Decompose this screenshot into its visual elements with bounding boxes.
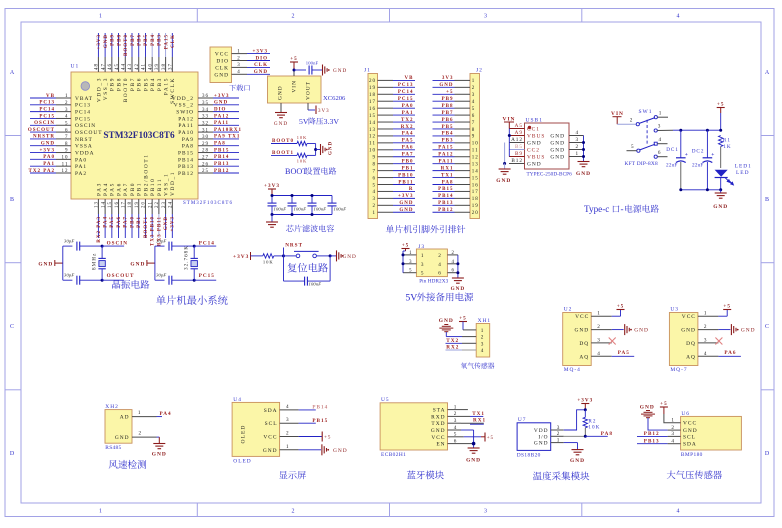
wire net +3V3 xyxy=(171,214,173,238)
svg-text:PC14: PC14 xyxy=(39,107,55,112)
capacitor 100nF #1 xyxy=(271,196,273,204)
svg-text:PA12: PA12 xyxy=(178,116,194,122)
svg-text:PB4: PB4 xyxy=(150,77,156,91)
wire RXD TX1 xyxy=(461,415,470,417)
svg-text:PA6: PA6 xyxy=(117,216,122,228)
svg-text:PC13: PC13 xyxy=(75,103,91,109)
title MCU pin headers xyxy=(386,225,394,233)
wire gnd bus xyxy=(473,430,475,448)
svg-text:PB5: PB5 xyxy=(442,125,454,130)
svg-text:GND: GND xyxy=(329,141,334,155)
wire net PB4 xyxy=(151,33,153,57)
power +5 xyxy=(290,61,298,63)
wire net GND xyxy=(433,86,455,88)
wire +5 bus xyxy=(405,249,407,252)
svg-text:NRST: NRST xyxy=(285,243,303,249)
wire net PC13 xyxy=(393,86,415,88)
wire net PB3 xyxy=(158,33,160,57)
svg-text:20: 20 xyxy=(369,79,376,84)
title download port xyxy=(229,85,236,91)
svg-text:+3V3: +3V3 xyxy=(398,194,413,199)
svg-text:GND: GND xyxy=(439,318,454,324)
svg-text:2: 2 xyxy=(373,204,377,209)
wire net PA5 xyxy=(111,214,113,238)
svg-text:VCC: VCC xyxy=(575,314,589,320)
node junction xyxy=(584,408,587,411)
svg-text:22uF: 22uF xyxy=(692,163,703,169)
svg-text:AD: AD xyxy=(120,415,130,421)
wire STA xyxy=(461,409,468,411)
wire AQ to PA5 xyxy=(612,355,635,357)
svg-text:9: 9 xyxy=(373,156,377,161)
svg-text:4: 4 xyxy=(286,404,290,410)
svg-text:KFT DIP-8X8: KFT DIP-8X8 xyxy=(625,161,659,167)
svg-text:PB14: PB14 xyxy=(312,405,328,411)
svg-text:PA2: PA2 xyxy=(75,171,87,177)
svg-text:18: 18 xyxy=(472,197,479,202)
wire net OSCIN xyxy=(30,124,56,126)
svg-text:GND: GND xyxy=(399,201,413,206)
svg-text:GND: GND xyxy=(333,448,348,454)
wire pin3 rail xyxy=(657,129,673,131)
svg-text:5V: 5V xyxy=(299,117,309,126)
node bottom junctions xyxy=(679,188,682,191)
svg-text:SCL: SCL xyxy=(265,421,278,427)
svg-text:BOOT0: BOOT0 xyxy=(123,77,129,102)
module U7 body xyxy=(517,423,551,451)
connector J3 body xyxy=(416,249,447,277)
wire net PB15 xyxy=(213,152,239,154)
title MCU minimum system xyxy=(156,295,166,304)
wire VIN to VBUS xyxy=(508,122,510,129)
svg-text:NRSTR: NRSTR xyxy=(33,135,55,140)
wire net R xyxy=(393,190,415,192)
svg-text:PA6: PA6 xyxy=(402,146,414,151)
wire net GND xyxy=(393,204,415,206)
svg-text:GND: GND xyxy=(104,34,109,48)
svg-text:J1: J1 xyxy=(364,68,371,74)
wire to ground xyxy=(720,190,722,193)
svg-text:2: 2 xyxy=(139,431,143,437)
wire GND xyxy=(612,329,624,331)
connector XH1 body xyxy=(476,324,490,358)
svg-text:14: 14 xyxy=(472,169,479,174)
svg-text:DIO: DIO xyxy=(216,59,229,65)
svg-text:-: - xyxy=(621,204,624,214)
svg-text:SW1: SW1 xyxy=(639,109,653,115)
svg-text:PB9: PB9 xyxy=(111,34,116,46)
svg-text:EN: EN xyxy=(436,442,445,448)
wire net PC13 xyxy=(30,104,56,106)
wire net PB8 xyxy=(433,107,455,109)
wire GND pin xyxy=(280,103,282,112)
wire net +3V3 xyxy=(213,97,239,99)
node junction xyxy=(314,148,317,151)
wire junction xyxy=(315,144,317,156)
svg-text:1: 1 xyxy=(373,211,377,216)
svg-text:PA0: PA0 xyxy=(402,104,414,109)
svg-text:10K: 10K xyxy=(297,159,308,164)
wire net PB5 xyxy=(144,33,146,57)
wire net PB4 xyxy=(433,135,455,137)
svg-text:1K: 1K xyxy=(723,144,731,150)
svg-text:17: 17 xyxy=(369,100,376,105)
svg-text:+5: +5 xyxy=(487,436,494,441)
power +5 xyxy=(723,309,731,311)
wire net PB14 xyxy=(213,158,239,160)
svg-text:PA11: PA11 xyxy=(214,121,229,126)
node DC1 junction xyxy=(679,129,682,132)
regulator U8 XC6206 body xyxy=(268,76,322,103)
svg-text:19: 19 xyxy=(369,86,376,91)
node VIN junction xyxy=(293,69,296,72)
wire SDA PB13 xyxy=(637,443,668,445)
svg-text:PB15: PB15 xyxy=(438,187,453,192)
svg-text:PB4: PB4 xyxy=(442,132,454,137)
svg-text:17: 17 xyxy=(472,190,479,195)
svg-text:PB0: PB0 xyxy=(130,182,136,196)
svg-text:DC2: DC2 xyxy=(692,149,705,155)
wire +5 to pin1 xyxy=(462,322,464,330)
wire net PA6 xyxy=(118,214,120,238)
svg-text:OSCIN: OSCIN xyxy=(107,241,128,247)
svg-text:GND: GND xyxy=(527,162,542,168)
wire +3V3 feed xyxy=(271,189,273,196)
svg-text:I/O: I/O xyxy=(538,434,548,440)
wire VCC +5 xyxy=(299,436,322,438)
svg-text:RX2 PA3: RX2 PA3 xyxy=(97,216,102,243)
svg-text:DQ: DQ xyxy=(579,341,589,347)
svg-text:GND: GND xyxy=(575,328,590,334)
capacitor 100nF #2 xyxy=(291,196,293,204)
svg-text:VSS_2: VSS_2 xyxy=(174,103,194,109)
wire GND to pin2 xyxy=(445,332,447,337)
svg-text:PB5: PB5 xyxy=(144,34,149,46)
svg-text:GND: GND xyxy=(274,121,288,127)
power 3V3 xyxy=(315,106,317,115)
node junctions xyxy=(402,253,405,256)
svg-text:GND: GND xyxy=(576,171,591,177)
node rail junction xyxy=(271,194,274,197)
connector XH2 body xyxy=(105,410,132,444)
svg-text:5: 5 xyxy=(421,271,425,277)
svg-text:SWIO: SWIO xyxy=(176,110,194,116)
svg-text:PC13: PC13 xyxy=(39,101,55,106)
svg-text:OSCOUT: OSCOUT xyxy=(75,130,103,136)
node DC2 junction xyxy=(706,129,709,132)
svg-text:3: 3 xyxy=(421,262,425,268)
wire top rail xyxy=(272,195,332,197)
svg-text:PB13: PB13 xyxy=(178,164,194,170)
wire pin6 xyxy=(657,156,667,158)
svg-text:PA3: PA3 xyxy=(96,182,102,196)
wire net GND xyxy=(393,211,415,213)
svg-text:PA5: PA5 xyxy=(402,139,414,144)
ground bars xyxy=(323,65,328,76)
svg-text:5: 5 xyxy=(472,107,476,112)
svg-text:PA12: PA12 xyxy=(438,153,453,158)
node junction xyxy=(582,155,585,158)
svg-text:1: 1 xyxy=(138,410,142,416)
svg-text:OSCIN: OSCIN xyxy=(34,121,55,126)
wire VDD to +3V3 xyxy=(564,410,586,430)
svg-text:GND: GND xyxy=(164,216,169,230)
ground xyxy=(452,278,464,283)
wire to capacitor xyxy=(294,69,306,71)
wire AQ to PA6 xyxy=(718,355,741,357)
svg-text:VCC: VCC xyxy=(263,435,277,441)
wire +3V3 down xyxy=(584,404,586,410)
svg-text:GND: GND xyxy=(152,452,167,458)
svg-text:AQ: AQ xyxy=(579,354,589,360)
svg-text:U2: U2 xyxy=(564,307,573,313)
power +5 xyxy=(617,309,625,311)
svg-text:PB9: PB9 xyxy=(442,97,454,102)
wire net DIO xyxy=(213,111,239,113)
wire BOOT0 xyxy=(271,143,297,145)
resistor 10K xyxy=(263,254,274,258)
svg-text:PA5: PA5 xyxy=(110,216,115,228)
svg-text:PA6: PA6 xyxy=(724,350,736,356)
svg-text:6: 6 xyxy=(438,271,442,277)
title reset circuit xyxy=(288,263,297,272)
svg-text:30pF: 30pF xyxy=(64,239,74,244)
wire net +3V3 xyxy=(247,53,270,55)
svg-text:VBAT: VBAT xyxy=(75,96,93,102)
svg-text:RXD: RXD xyxy=(431,414,445,420)
svg-text:11: 11 xyxy=(472,149,479,154)
wire net GND xyxy=(30,145,56,147)
svg-text:+5: +5 xyxy=(290,56,298,62)
svg-text:DS18B20: DS18B20 xyxy=(517,452,541,458)
svg-text:PB2/BOOT1: PB2/BOOT1 xyxy=(143,153,149,196)
wire net PB12 xyxy=(213,172,239,174)
svg-text:GND: GND xyxy=(683,428,698,434)
ground bars xyxy=(322,444,327,455)
svg-text:PB1: PB1 xyxy=(137,182,143,196)
svg-text:TX2 PA2: TX2 PA2 xyxy=(29,169,56,174)
svg-text:GND: GND xyxy=(550,134,565,140)
ground bars xyxy=(731,324,736,335)
svg-text:PB5: PB5 xyxy=(143,77,149,91)
wire to ground xyxy=(271,215,273,223)
svg-text:+5: +5 xyxy=(446,90,453,95)
svg-text:2: 2 xyxy=(438,253,442,259)
title chip filter capacitors xyxy=(286,225,293,232)
wire net TX1 xyxy=(433,177,455,179)
svg-text:GND: GND xyxy=(38,261,53,267)
svg-text:TX1: TX1 xyxy=(441,173,453,178)
svg-text:VIN: VIN xyxy=(611,111,624,117)
wire GND pin4 xyxy=(461,429,474,431)
wire net TX2 xyxy=(393,121,415,123)
svg-text:+: + xyxy=(685,152,689,158)
module U5 body xyxy=(380,403,447,450)
switch reset button xyxy=(284,255,297,257)
svg-text:PA1: PA1 xyxy=(402,111,414,116)
svg-text:PB11: PB11 xyxy=(157,178,163,196)
wire PA4 xyxy=(157,416,163,418)
svg-text:GND: GND xyxy=(550,141,565,147)
wire GND xyxy=(718,329,730,331)
svg-text:TXD: TXD xyxy=(431,421,445,427)
svg-text:7: 7 xyxy=(472,121,476,126)
wire net BOOT0 xyxy=(124,33,126,57)
ground bars xyxy=(321,144,326,155)
svg-text:+5: +5 xyxy=(660,401,668,407)
svg-text:PB15: PB15 xyxy=(214,148,229,153)
node crystal bottom junction xyxy=(193,279,196,282)
wire net PB12 xyxy=(433,211,455,213)
svg-text:5: 5 xyxy=(631,144,635,150)
svg-text:VBUS: VBUS xyxy=(527,134,545,140)
svg-text:PA8: PA8 xyxy=(601,431,613,437)
wire net PB3 xyxy=(433,142,455,144)
svg-text:1: 1 xyxy=(99,14,103,20)
svg-text:VSS_3: VSS_3 xyxy=(103,77,109,100)
svg-text:OLED: OLED xyxy=(233,459,251,465)
svg-text:GND: GND xyxy=(399,208,413,213)
svg-text:3V3: 3V3 xyxy=(318,109,330,114)
resistor 10K lower xyxy=(297,153,307,157)
svg-text:CLK: CLK xyxy=(171,34,176,48)
svg-text:+5: +5 xyxy=(717,102,725,108)
svg-text:100nF: 100nF xyxy=(309,282,322,287)
svg-text:PB12: PB12 xyxy=(214,169,229,174)
svg-text:100nF: 100nF xyxy=(306,61,319,66)
svg-text:GND: GND xyxy=(130,261,145,267)
wire net PA8 xyxy=(433,184,455,186)
svg-text:RX1: RX1 xyxy=(473,418,486,424)
svg-text:SDA: SDA xyxy=(264,408,278,414)
svg-text:PC13: PC13 xyxy=(398,83,414,88)
svg-text:R1: R1 xyxy=(723,138,731,144)
svg-text:VB: VB xyxy=(405,76,414,81)
wire net PB0 xyxy=(393,163,415,165)
svg-text:BMP180: BMP180 xyxy=(681,452,703,458)
svg-text:PB13: PB13 xyxy=(644,439,660,445)
wire net PC15 xyxy=(393,100,415,102)
svg-text:PA0: PA0 xyxy=(75,157,87,163)
wire pin1 xyxy=(657,116,668,118)
svg-text:PB1: PB1 xyxy=(137,216,142,228)
switch SW1 pin3 xyxy=(654,129,657,132)
svg-text:TX2: TX2 xyxy=(401,118,413,123)
svg-text:8: 8 xyxy=(373,162,377,167)
connector P1 download port body xyxy=(210,47,232,83)
svg-text:PA9 TX1: PA9 TX1 xyxy=(214,135,240,140)
svg-text:4: 4 xyxy=(481,348,485,354)
wire net DIO xyxy=(247,60,270,62)
svg-text:3: 3 xyxy=(484,14,488,20)
svg-text:GND: GND xyxy=(214,101,228,106)
svg-text:PA4: PA4 xyxy=(160,411,172,417)
wire EN pin6 xyxy=(461,443,474,445)
svg-text:BOOT0: BOOT0 xyxy=(124,34,129,56)
svg-text:10K: 10K xyxy=(588,424,600,430)
wire net +3V3 xyxy=(393,197,415,199)
svg-text:100nF: 100nF xyxy=(334,207,347,212)
svg-text:10: 10 xyxy=(472,142,479,147)
svg-text:LED1: LED1 xyxy=(735,163,752,169)
svg-text:PB9: PB9 xyxy=(110,77,116,91)
power +5 xyxy=(660,406,668,408)
wire net PB1 xyxy=(138,214,140,238)
svg-text:PA8: PA8 xyxy=(442,180,454,185)
svg-text:PB14: PB14 xyxy=(438,194,453,199)
svg-text:R: R xyxy=(409,187,414,192)
svg-text:30pF: 30pF xyxy=(64,273,74,278)
wire GND xyxy=(299,449,321,451)
wire net PA7 xyxy=(393,156,415,158)
svg-text:8: 8 xyxy=(472,128,476,133)
svg-text:PB12: PB12 xyxy=(644,431,660,437)
svg-text:GND: GND xyxy=(431,428,446,434)
ground xyxy=(275,113,287,118)
wire net +3V3 xyxy=(97,33,99,57)
wire net GND xyxy=(104,33,106,57)
svg-text:BOOT1: BOOT1 xyxy=(144,216,149,238)
svg-text:6: 6 xyxy=(658,150,662,156)
wire +5 to VIN xyxy=(293,62,295,70)
wire bottom branch xyxy=(155,279,165,281)
wire left vertical xyxy=(154,246,156,280)
svg-text:STM32F103C8T6: STM32F103C8T6 xyxy=(103,131,175,141)
wire VCC +5 xyxy=(461,436,464,438)
svg-text:7: 7 xyxy=(373,169,377,174)
power +5 xyxy=(321,432,323,442)
svg-text:PA10RX1: PA10RX1 xyxy=(214,128,242,133)
wire net PB10 xyxy=(393,177,415,179)
svg-text:4: 4 xyxy=(472,100,476,105)
svg-text:VDD_1: VDD_1 xyxy=(170,171,176,196)
svg-text:GND: GND xyxy=(550,148,565,154)
svg-text:VSS_1: VSS_1 xyxy=(164,173,170,196)
svg-text:GND: GND xyxy=(41,142,55,147)
wire net GND xyxy=(213,104,239,106)
svg-text:PA15: PA15 xyxy=(164,34,169,49)
wire net PB6 xyxy=(138,33,140,57)
svg-text:6: 6 xyxy=(373,176,377,181)
wire TX2 xyxy=(446,342,463,344)
svg-text:30pF: 30pF xyxy=(156,273,166,278)
svg-text:DIO: DIO xyxy=(214,107,226,112)
svg-text:PB3: PB3 xyxy=(158,34,163,46)
wire pin4 xyxy=(657,143,667,145)
svg-text:+3V3: +3V3 xyxy=(253,49,268,54)
ground fancy xyxy=(641,411,655,418)
svg-text:+5: +5 xyxy=(402,243,410,249)
svg-text:CLK: CLK xyxy=(254,63,268,68)
svg-text:1: 1 xyxy=(421,253,425,259)
svg-text:PA4: PA4 xyxy=(402,132,414,137)
ground xyxy=(468,448,480,453)
node crystal bottom junction xyxy=(101,279,104,282)
wire net PA11 xyxy=(433,163,455,165)
wire to ground xyxy=(157,436,160,438)
switch SW1 pole A xyxy=(636,123,639,126)
svg-text:32.768K: 32.768K xyxy=(184,245,190,270)
wire VIN to pin2 xyxy=(616,117,618,125)
resistor R2 10K xyxy=(584,410,586,418)
svg-text:PB6: PB6 xyxy=(138,34,143,46)
svg-text:PA7: PA7 xyxy=(402,153,414,158)
svg-text:3: 3 xyxy=(472,93,476,98)
node NRST xyxy=(282,254,285,257)
node junction xyxy=(584,435,587,438)
svg-text:A: A xyxy=(765,70,770,76)
svg-text:+3V3: +3V3 xyxy=(171,216,176,231)
